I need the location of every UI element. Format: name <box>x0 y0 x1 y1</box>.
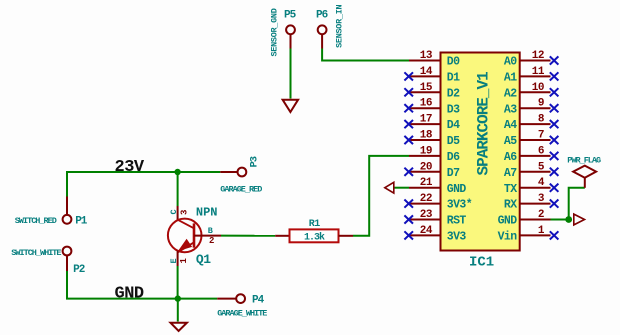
svg-text:A3: A3 <box>504 103 517 116</box>
pin 10 A2 <box>504 82 559 101</box>
svg-text:2: 2 <box>538 209 544 221</box>
pin 8 A4 <box>504 114 559 133</box>
svg-text:A1: A1 <box>504 72 517 85</box>
svg-text:SENSOR_IN: SENSOR_IN <box>335 4 345 47</box>
pin 11 A1 <box>504 66 559 85</box>
svg-text:D7: D7 <box>447 167 460 180</box>
svg-text:22: 22 <box>420 193 432 205</box>
svg-text:NPN: NPN <box>196 206 218 220</box>
pin 5 A7 <box>504 161 559 180</box>
svg-text:D3: D3 <box>447 103 460 116</box>
wire GND drop <box>177 299 179 322</box>
svg-text:1: 1 <box>538 225 545 237</box>
svg-text:PWR_FLAG: PWR_FLAG <box>567 155 601 165</box>
svg-text:D4: D4 <box>447 119 460 132</box>
svg-text:A7: A7 <box>504 167 517 180</box>
svg-text:3V3: 3V3 <box>447 231 467 244</box>
svg-text:13: 13 <box>420 50 433 62</box>
pin 9 A3 <box>504 98 559 117</box>
pin 22 3V3* <box>404 193 472 212</box>
svg-text:8: 8 <box>538 114 545 126</box>
svg-text:RST: RST <box>447 215 467 228</box>
pin 16 D3 <box>404 98 460 117</box>
svg-text:SWITCH_WHITE: SWITCH_WHITE <box>11 248 61 258</box>
svg-text:19: 19 <box>420 145 432 157</box>
connector P6 <box>316 10 328 49</box>
svg-text:3V3*: 3V3* <box>447 199 472 212</box>
pin 14 D1 <box>404 66 460 85</box>
svg-text:RX: RX <box>504 199 517 212</box>
pin 7 A5 <box>504 130 559 149</box>
svg-text:GARAGE_WHITE: GARAGE_WHITE <box>217 309 267 319</box>
svg-text:SPARKCORE_V1: SPARKCORE_V1 <box>475 72 493 176</box>
svg-text:A2: A2 <box>504 87 517 100</box>
svg-text:D0: D0 <box>447 56 460 69</box>
pin 21 GND <box>409 177 466 196</box>
node arrow left (pin 21) <box>385 182 394 193</box>
wire P2 to GND rail <box>67 271 178 299</box>
connector P1 <box>63 197 88 228</box>
svg-text:P6: P6 <box>316 10 328 22</box>
ground symbol (sensor) <box>283 100 299 112</box>
svg-text:5: 5 <box>538 161 545 173</box>
ground symbol (main) <box>171 323 187 331</box>
pin 17 D4 <box>404 114 460 133</box>
svg-text:4: 4 <box>538 177 545 189</box>
svg-text:R1: R1 <box>309 219 321 230</box>
pin 23 RST <box>404 209 466 228</box>
pin 24 3V3 <box>404 225 466 244</box>
svg-text:17: 17 <box>420 114 432 126</box>
wire P6 to IC pin 13 <box>322 49 409 61</box>
pin 13 D0 <box>409 50 460 69</box>
svg-text:7: 7 <box>538 130 544 142</box>
svg-text:1: 1 <box>179 258 189 264</box>
svg-text:GND: GND <box>498 215 518 228</box>
pin 12 A0 <box>504 50 559 69</box>
node arrow right (pin 2) <box>574 214 585 225</box>
svg-text:P4: P4 <box>252 295 265 307</box>
svg-text:1.3k: 1.3k <box>304 232 325 244</box>
wire junction to PWR_FLAG <box>569 188 585 220</box>
svg-text:IC1: IC1 <box>469 254 494 270</box>
svg-text:P5: P5 <box>284 10 297 22</box>
pin 15 D2 <box>404 82 460 101</box>
svg-text:A5: A5 <box>504 135 517 148</box>
wire Q1 emitter to GND rail <box>177 266 179 299</box>
svg-text:GND: GND <box>447 183 467 196</box>
node junction pin2/PWR_FLAG <box>565 216 572 223</box>
wire pin 2 to junction <box>551 219 569 221</box>
svg-text:Q1: Q1 <box>196 252 211 267</box>
svg-text:SENSOR_GND: SENSOR_GND <box>270 8 280 56</box>
svg-text:A0: A0 <box>504 56 517 69</box>
connector P5 <box>284 10 297 49</box>
svg-text:D2: D2 <box>447 87 460 100</box>
svg-text:23V: 23V <box>115 158 145 177</box>
svg-text:P2: P2 <box>73 264 85 276</box>
svg-text:11: 11 <box>532 66 545 78</box>
wire pin 21 stub <box>394 187 409 189</box>
svg-text:GARAGE_RED: GARAGE_RED <box>220 185 262 195</box>
svg-text:TX: TX <box>504 183 517 196</box>
svg-text:2: 2 <box>209 236 214 246</box>
svg-text:P3: P3 <box>248 156 260 167</box>
connector P3 <box>220 156 260 176</box>
svg-text:14: 14 <box>420 66 433 78</box>
resistor R1 <box>275 219 353 244</box>
svg-text:15: 15 <box>420 82 433 94</box>
wire 23V rail <box>67 172 220 215</box>
wire GND rail to P4 <box>178 298 217 300</box>
svg-text:D6: D6 <box>447 151 460 164</box>
wire R1 to IC pin 19 <box>353 156 409 236</box>
connector P2 <box>63 247 85 276</box>
pin 18 D5 <box>404 130 460 149</box>
pin 20 D7 <box>404 161 460 180</box>
svg-text:12: 12 <box>532 50 544 62</box>
wire Q1 base to R1 <box>221 235 275 237</box>
svg-text:SWITCH_RED: SWITCH_RED <box>15 216 57 226</box>
op-amp IC1 body <box>441 53 520 251</box>
node junction GND/Q1 emitter <box>175 295 181 301</box>
pin 6 A6 <box>504 145 559 164</box>
svg-text:3: 3 <box>180 210 190 215</box>
wire P5 down <box>290 49 292 99</box>
pin 3 RX <box>504 193 559 212</box>
svg-text:10: 10 <box>532 82 544 94</box>
svg-text:23: 23 <box>420 209 433 221</box>
svg-text:Vin: Vin <box>498 231 518 244</box>
svg-text:20: 20 <box>420 161 432 173</box>
svg-text:GND: GND <box>115 284 144 303</box>
node junction 23V/Q1 <box>174 169 180 175</box>
svg-text:D5: D5 <box>447 135 460 148</box>
power flag PWR_FLAG <box>567 155 601 188</box>
svg-text:21: 21 <box>420 177 433 189</box>
svg-text:D1: D1 <box>447 72 460 85</box>
svg-text:24: 24 <box>420 225 433 237</box>
svg-text:C: C <box>169 209 179 214</box>
connector P4 <box>217 294 264 306</box>
wire junction to Q1 collector <box>177 172 179 206</box>
svg-text:A4: A4 <box>504 119 517 132</box>
svg-text:3: 3 <box>538 193 545 205</box>
pin 2 GND <box>498 209 551 228</box>
pin 19 D6 <box>409 145 460 164</box>
pin 4 TX <box>504 177 559 196</box>
svg-text:P1: P1 <box>75 216 88 228</box>
svg-text:B: B <box>208 226 213 236</box>
svg-text:16: 16 <box>420 98 432 110</box>
transistor Q1 <box>168 206 221 268</box>
svg-text:E: E <box>169 258 179 263</box>
svg-text:A6: A6 <box>504 151 517 164</box>
pin 1 Vin <box>498 225 559 244</box>
svg-text:18: 18 <box>420 130 433 142</box>
svg-text:9: 9 <box>538 98 544 110</box>
svg-text:6: 6 <box>538 145 544 157</box>
